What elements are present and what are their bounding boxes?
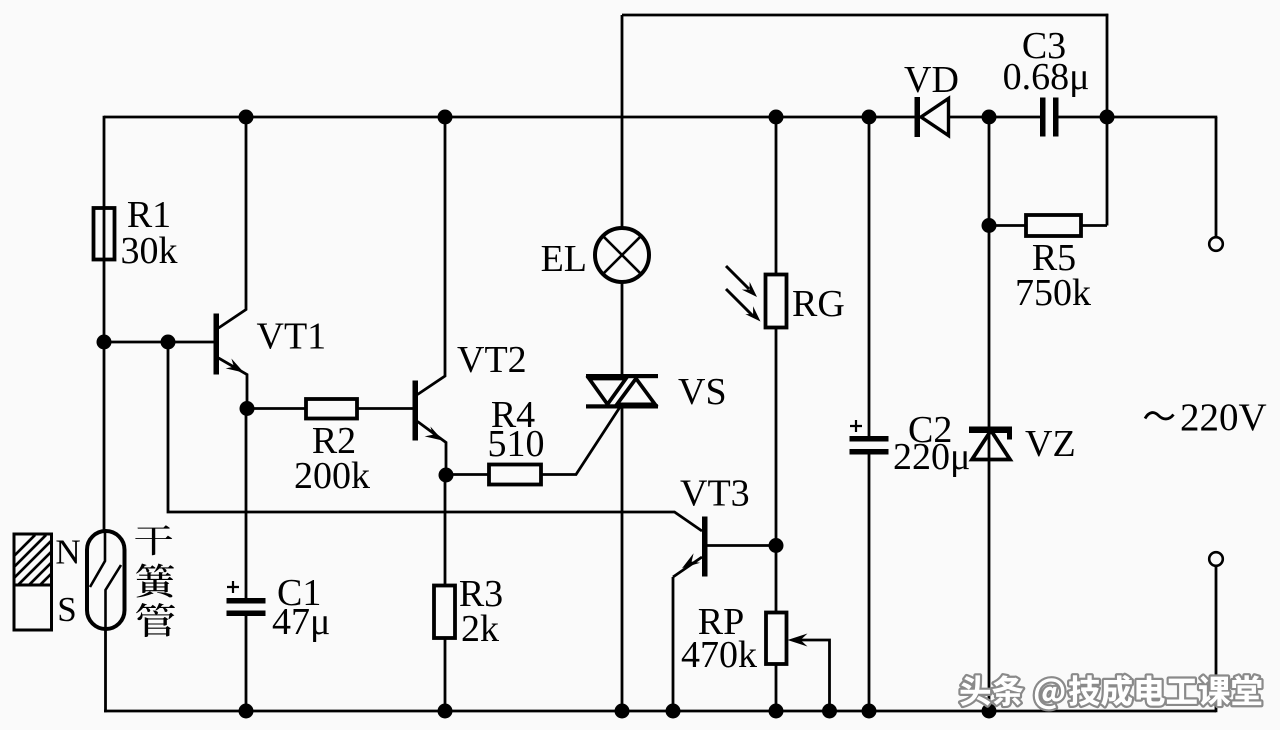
svg-text:VD: VD (904, 59, 959, 101)
wire RP wiper to bottom rail (800, 640, 830, 711)
svg-text:0.68μ: 0.68μ (1003, 56, 1090, 98)
wire left column x104 upper (103, 116, 106, 531)
junction left column / VT1 base (97, 335, 112, 350)
label RG (792, 283, 845, 325)
wire VT1 collector column x246 (219, 117, 247, 328)
potentiometer RP wiper arrow (788, 634, 808, 647)
wire VT3 emitter diagonal (673, 557, 702, 577)
lamp EL cross (603, 236, 641, 274)
capacitor C3 right plate (1053, 98, 1059, 137)
photoresistor RG arrow 2 (726, 289, 761, 322)
triac VS right triangle (617, 379, 655, 405)
svg-text:510: 510 (488, 423, 545, 465)
capacitor C2 bottom plate (850, 449, 889, 455)
svg-text:200k: 200k (294, 455, 370, 497)
triac VS top bar (586, 374, 658, 378)
wire top rail (622, 14, 1108, 17)
label R3 value (459, 573, 503, 650)
wire VZ column x989 (988, 117, 991, 711)
junction feedback node (161, 335, 176, 350)
svg-text:VT3: VT3 (680, 473, 750, 515)
diode VD triangle (921, 99, 949, 136)
wire right top column x1107 (1106, 14, 1109, 226)
svg-text:VS: VS (678, 371, 727, 413)
svg-text:VT2: VT2 (457, 339, 527, 381)
wire R4 left (445, 473, 489, 476)
label EL (541, 238, 587, 280)
junction bottom rail / C2 (862, 704, 877, 719)
reed switch capsule (87, 531, 125, 629)
svg-text:47μ: 47μ (272, 601, 330, 643)
wire main rail y117 right segment (1059, 116, 1218, 119)
capacitor C1 top plate (227, 598, 266, 604)
svg-text:220μ: 220μ (893, 436, 970, 478)
label C1 value (272, 572, 330, 643)
junction main rail / R5 column (1100, 110, 1115, 125)
transistor VT1 base bar (214, 314, 220, 375)
wire C1 column upper (245, 409, 248, 599)
terminal lower (AC) (1209, 552, 1223, 566)
wire VT2 emitter to R4 node (418, 422, 447, 476)
junction bottom rail / C1 (239, 704, 254, 719)
capacitor C2 top plate (850, 436, 889, 442)
label VT2 (457, 339, 527, 381)
capacitor C1 plus (227, 581, 239, 593)
label RP value (681, 601, 757, 676)
junction bottom rail / RP (769, 704, 784, 719)
junction bottom rail / RP wiper (822, 704, 837, 719)
transistor VT3 base bar (702, 517, 708, 577)
wire RP to bottom rail (775, 664, 778, 711)
label C3 value (1003, 25, 1090, 98)
wire VS to bottom rail (621, 408, 624, 711)
junction main rail / VT2 collector (438, 110, 453, 125)
label VT1 (257, 316, 327, 358)
junction VT1 emitter / R2 / C1 (240, 401, 255, 416)
resistor R5 (1026, 215, 1081, 236)
label VZ (1025, 423, 1076, 465)
terminal upper (AC) (1209, 237, 1223, 251)
reed switch right contact (106, 565, 122, 629)
junction bottom rail / R3 (438, 704, 453, 719)
zener diode VZ triangle (972, 431, 1010, 460)
magnet divider (14, 584, 52, 587)
transistor VT2 base bar (413, 381, 419, 441)
svg-text:N: N (55, 533, 80, 572)
diode VD cathode bar (915, 97, 921, 137)
wire R4 right and gate diagonal to VS (541, 407, 620, 475)
label ~220V (1145, 396, 1267, 439)
magnet body (14, 534, 52, 630)
wire RG column upper (775, 117, 778, 275)
wire main rail y117 mid segment (VD to C3) (949, 116, 1041, 119)
photoresistor RG arrow 1 (726, 266, 757, 297)
transistor VT3 emitter arrow (682, 553, 700, 568)
label R1 value (121, 194, 178, 272)
label N pole (55, 533, 80, 572)
junction main rail / C2 (862, 110, 877, 125)
zener diode VZ cathode bar (969, 427, 1012, 440)
triac VS left triangle (589, 379, 626, 405)
wire VT1 base row y342 (104, 341, 214, 344)
triac VS bottom bar (586, 404, 658, 408)
wire R3 column lower (444, 638, 447, 711)
junction bottom rail / VZ (982, 704, 997, 719)
svg-text:S: S (57, 590, 76, 629)
wire VT2 collector column x445 (418, 117, 446, 395)
junction bottom rail / VS (615, 704, 630, 719)
svg-text:220V: 220V (1180, 396, 1267, 439)
resistor R4 (489, 465, 541, 485)
junction VT3 collector / RP (769, 538, 784, 553)
transistor VT2 emitter arrow (425, 427, 443, 441)
wire EL to VS (621, 282, 624, 375)
wire VT1 emitter to R2 node (219, 358, 248, 409)
wire main rail y117 left segment (104, 116, 915, 119)
wire R5 right (1081, 224, 1107, 227)
svg-text:470k: 470k (681, 634, 757, 676)
watermark toutiao text (960, 675, 1261, 709)
label R2 value (294, 420, 370, 497)
svg-text:30k: 30k (121, 230, 178, 272)
junction VT2 emitter / R4 / R3 (439, 468, 454, 483)
capacitor C3 left plate (1040, 98, 1046, 137)
label reed switch (Chinese: dry reed tube) (135, 525, 175, 637)
label VS (678, 371, 727, 413)
wire right rail to upper terminal (1215, 117, 1218, 238)
reed switch left contact (90, 531, 105, 587)
magnet pole hatching (N) (0, 535, 101, 585)
wire C2 column upper (868, 117, 871, 436)
label R5 value (1015, 237, 1091, 314)
junction main rail / VZ (982, 110, 997, 125)
label VT3 (680, 473, 750, 515)
transistor VT1 emitter arrow (226, 359, 244, 373)
label R4 value (488, 394, 545, 465)
svg-text:2k: 2k (461, 608, 499, 650)
wire R3 column upper (444, 475, 447, 586)
wire R2 left (246, 407, 306, 410)
svg-text:RG: RG (792, 283, 845, 325)
svg-text:VZ: VZ (1025, 423, 1076, 465)
wire lower terminal to bottom rail (1215, 566, 1218, 713)
label VD (904, 59, 959, 101)
svg-text:VT1: VT1 (257, 316, 327, 358)
svg-text:750k: 750k (1015, 272, 1091, 314)
junction bottom rail / VT3 emitter (666, 704, 681, 719)
junction VZ column / R5 (982, 218, 997, 233)
label C2 value (893, 409, 970, 478)
potentiometer RP (766, 613, 787, 665)
resistor R3 (434, 586, 455, 639)
wire left column x104 lower (below reed switch) (104, 629, 107, 712)
wire VT3 emitter column x673 (672, 577, 675, 711)
wire feedback column x168 and row y512 to VT3 base (168, 342, 702, 531)
wire C1 column lower (245, 616, 248, 712)
resistor R2 (306, 399, 357, 419)
wire RG to RP column (775, 328, 778, 613)
wire EL column upper (621, 15, 624, 229)
wire R2 right to VT2 base (357, 407, 413, 410)
wire R5 left (989, 224, 1026, 227)
photoresistor RG (766, 275, 787, 328)
resistor R1 (94, 208, 115, 260)
junction main rail / RG (769, 110, 784, 125)
wire VT3 collector row (707, 544, 776, 547)
lamp EL circle (595, 228, 649, 282)
junction main rail / VT1 collector (239, 110, 254, 125)
wire bottom rail y711 (104, 710, 1216, 713)
wire C2 column lower (868, 455, 871, 712)
capacitor C1 bottom plate (227, 611, 266, 617)
svg-text:EL: EL (541, 238, 587, 280)
capacitor C2 plus (850, 420, 862, 432)
label S pole (57, 590, 76, 629)
